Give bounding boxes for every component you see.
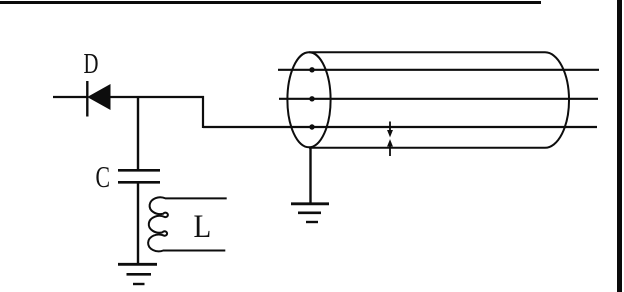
inductor L [148, 197, 227, 251]
svg-text:C: C [96, 159, 110, 194]
ground: below tube [291, 204, 329, 222]
wire: tube shell to ground [309, 147, 311, 203]
wire: capacitor to ground [137, 183, 139, 264]
wire: middle electrode line 2 [279, 98, 598, 100]
tube body: left ellipse (cathode end) [287, 52, 330, 147]
node dot: pin on line 3 [309, 124, 314, 129]
svg-text:D: D [84, 49, 99, 80]
wire: diode anode to corner [110, 96, 204, 98]
wire: lower feed line into tube (line 3) [203, 126, 597, 128]
node: junction to capacitor branch [137, 96, 139, 170]
wire: step-down vertical segment [202, 96, 204, 128]
annotation: gap dimension down arrow [388, 122, 392, 137]
svg-text:L: L [194, 207, 212, 244]
wire: input lead left of diode [53, 96, 87, 98]
node dot: pin on line 2 [309, 96, 314, 101]
node dot: pin on line 1 [309, 67, 314, 72]
wire: upper electrode line 1 [278, 69, 599, 71]
annotation: gap dimension up arrow [388, 141, 392, 157]
diode D [87, 81, 110, 117]
ground: below capacitor [118, 264, 157, 284]
tube body: outline with rounded right end [309, 52, 569, 148]
capacitor C [118, 170, 160, 182]
